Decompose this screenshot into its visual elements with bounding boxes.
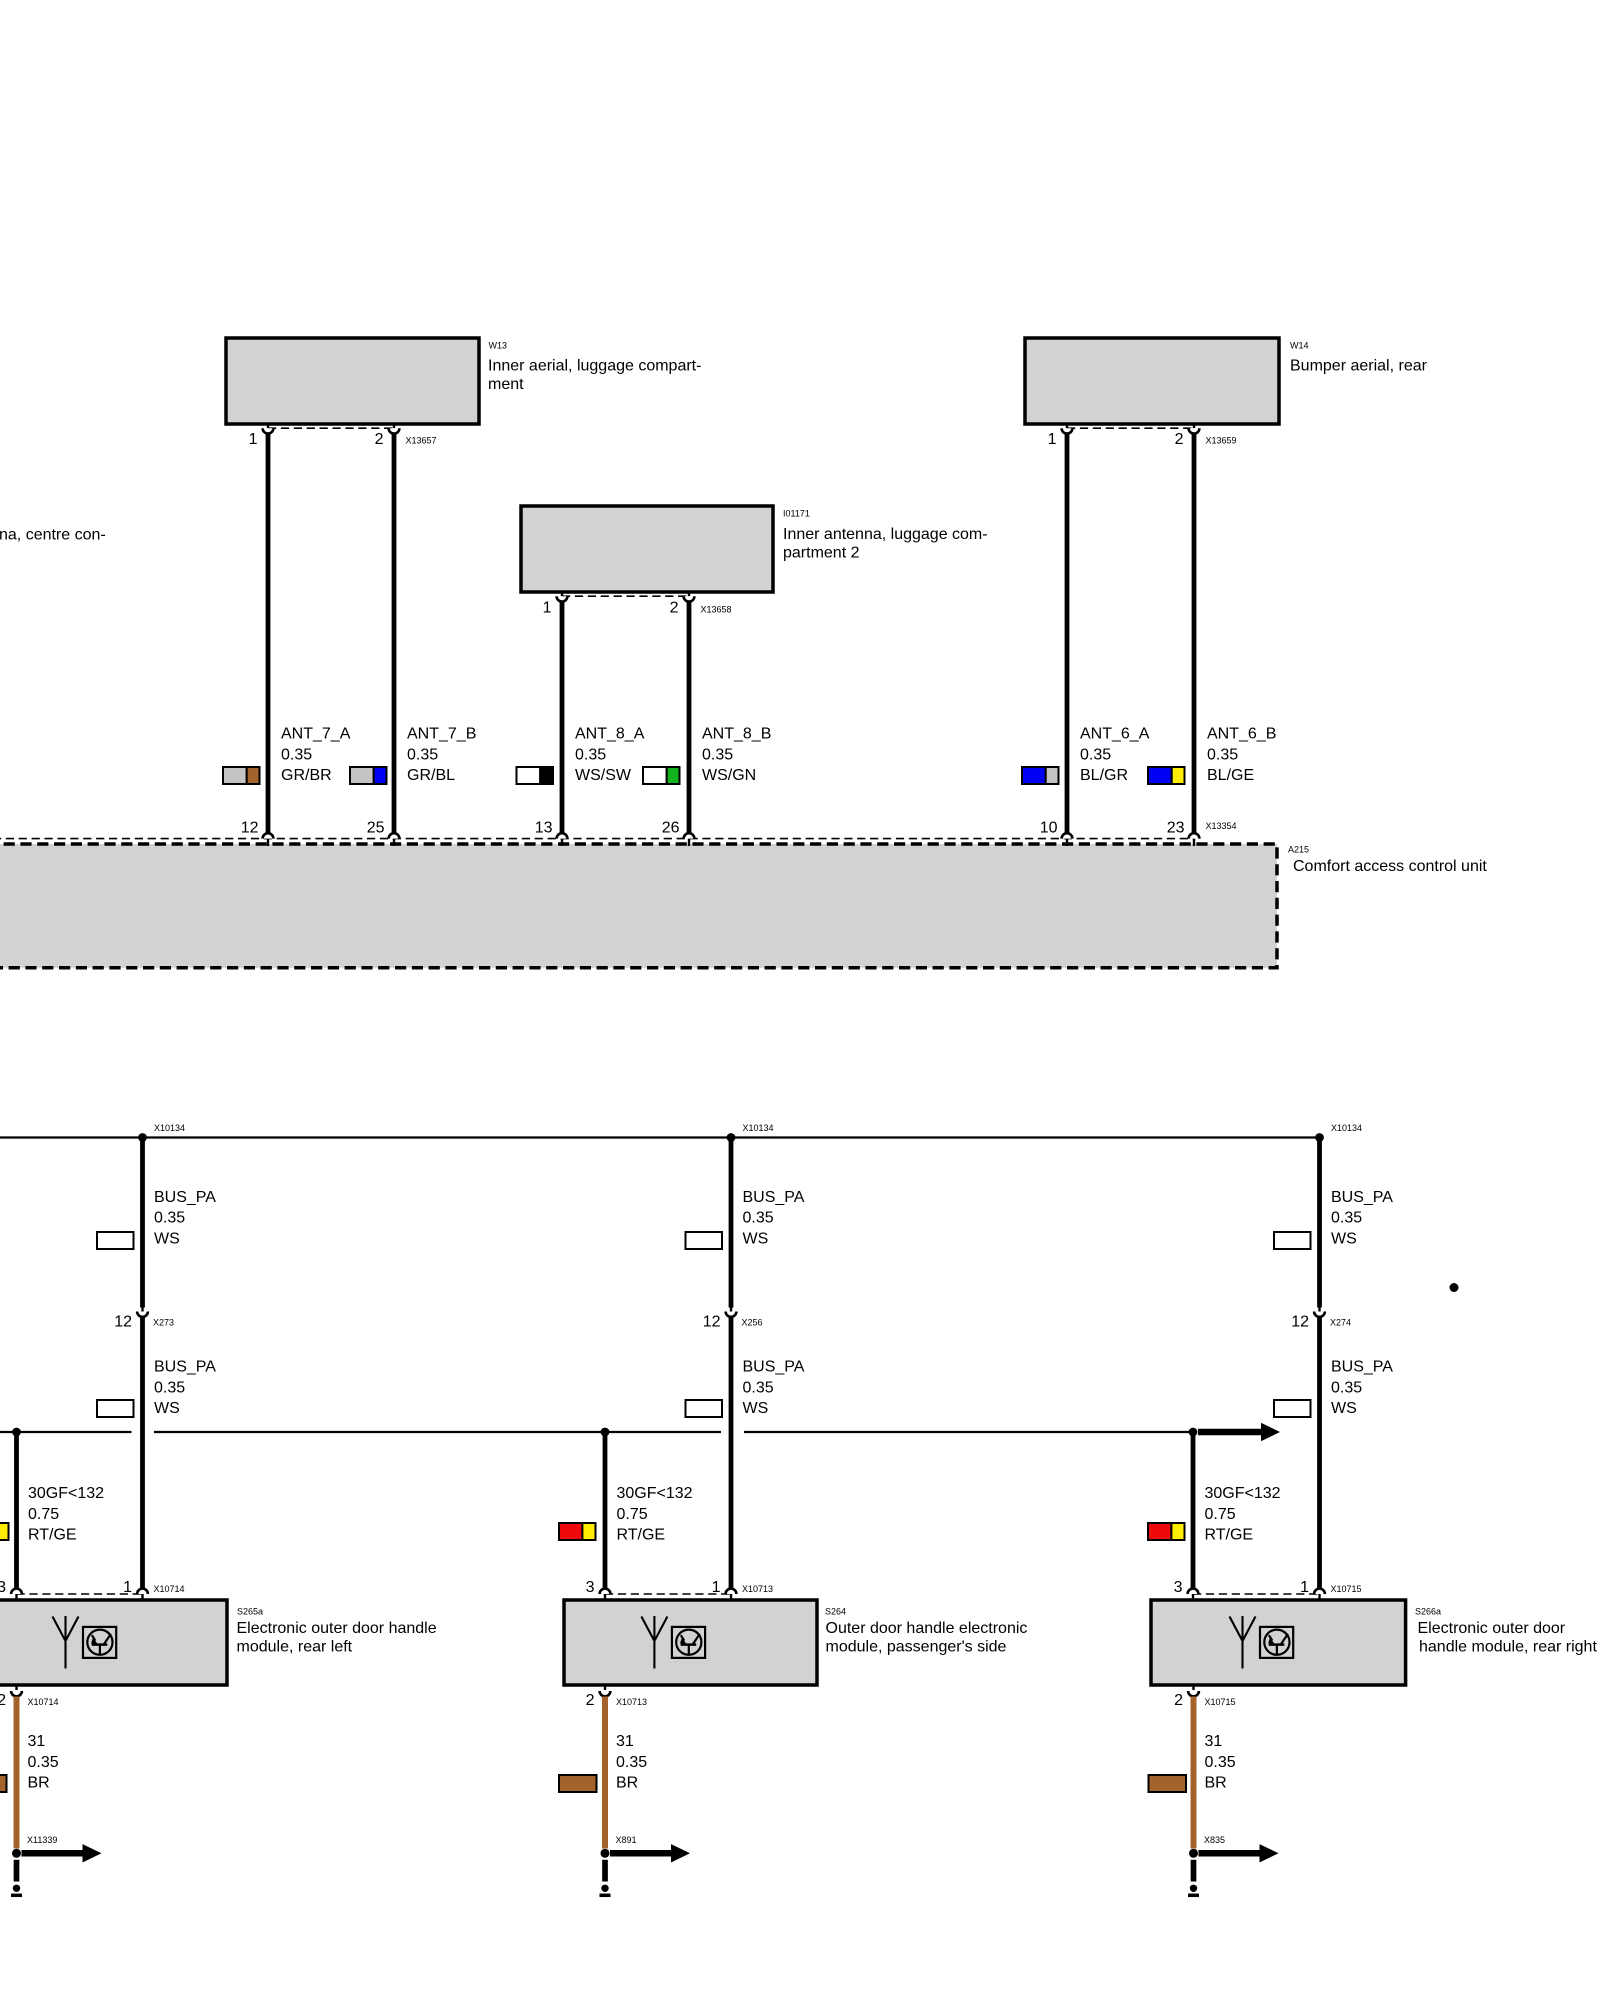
svg-text:WS: WS xyxy=(1331,1400,1357,1417)
svg-text:partment 2: partment 2 xyxy=(783,544,860,561)
svg-text:31: 31 xyxy=(28,1733,46,1750)
svg-text:X891: X891 xyxy=(616,1835,637,1845)
svg-text:31: 31 xyxy=(616,1733,634,1750)
svg-text:30GF<132: 30GF<132 xyxy=(28,1485,104,1502)
svg-text:RT/GE: RT/GE xyxy=(1205,1527,1254,1544)
svg-text:handle module, rear right: handle module, rear right xyxy=(1419,1639,1597,1656)
svg-text:2: 2 xyxy=(1174,1692,1183,1709)
svg-text:Comfort access control unit: Comfort access control unit xyxy=(1293,858,1487,875)
svg-text:31: 31 xyxy=(1205,1733,1223,1750)
svg-text:12: 12 xyxy=(114,1314,132,1331)
svg-text:0.35: 0.35 xyxy=(154,1379,185,1396)
svg-text:1: 1 xyxy=(123,1579,132,1596)
svg-text:ANT_6_A: ANT_6_A xyxy=(1080,726,1150,743)
svg-text:BR: BR xyxy=(616,1775,638,1792)
svg-text:ANT_6_B: ANT_6_B xyxy=(1207,726,1276,743)
svg-text:1: 1 xyxy=(543,600,552,617)
svg-text:W14: W14 xyxy=(1290,341,1309,351)
svg-text:X10715: X10715 xyxy=(1331,1584,1362,1594)
svg-text:13: 13 xyxy=(535,820,553,837)
svg-text:X256: X256 xyxy=(742,1318,763,1328)
svg-text:0.35: 0.35 xyxy=(281,746,312,763)
svg-text:X10714: X10714 xyxy=(28,1697,59,1707)
svg-text:WS: WS xyxy=(1331,1230,1357,1247)
svg-text:S266a: S266a xyxy=(1415,1607,1441,1617)
svg-text:BL/GE: BL/GE xyxy=(1207,767,1254,784)
svg-text:0.35: 0.35 xyxy=(1080,746,1111,763)
svg-text:30GF<132: 30GF<132 xyxy=(617,1485,693,1502)
svg-text:WS: WS xyxy=(743,1400,769,1417)
svg-text:X10713: X10713 xyxy=(616,1697,647,1707)
svg-text:10: 10 xyxy=(1040,820,1058,837)
svg-text:module, passenger's side: module, passenger's side xyxy=(826,1639,1007,1656)
svg-text:0.35: 0.35 xyxy=(1207,746,1238,763)
svg-text:BUS_PA: BUS_PA xyxy=(154,1359,216,1376)
svg-text:BUS_PA: BUS_PA xyxy=(154,1189,216,1206)
svg-text:0.35: 0.35 xyxy=(1205,1754,1236,1771)
svg-text:Inner aerial, luggage compart-: Inner aerial, luggage compart- xyxy=(488,358,701,375)
svg-text:Outer door handle electronic: Outer door handle electronic xyxy=(826,1620,1028,1637)
svg-text:ANT_8_A: ANT_8_A xyxy=(575,726,645,743)
svg-text:12: 12 xyxy=(703,1314,721,1331)
svg-text:0.35: 0.35 xyxy=(575,746,606,763)
svg-text:2: 2 xyxy=(375,431,384,448)
svg-text:2: 2 xyxy=(1175,431,1184,448)
svg-text:0.35: 0.35 xyxy=(743,1210,774,1227)
svg-text:GR/BR: GR/BR xyxy=(281,767,332,784)
svg-text:Electronic outer door handle: Electronic outer door handle xyxy=(237,1620,437,1637)
svg-text:0.75: 0.75 xyxy=(1205,1506,1236,1523)
svg-text:X10134: X10134 xyxy=(1331,1123,1362,1133)
svg-text:0.75: 0.75 xyxy=(617,1506,648,1523)
svg-text:WS/SW: WS/SW xyxy=(575,767,632,784)
svg-text:ANT_8_B: ANT_8_B xyxy=(702,726,771,743)
svg-text:0.35: 0.35 xyxy=(1331,1210,1362,1227)
svg-text:Electronic outer door: Electronic outer door xyxy=(1418,1620,1566,1637)
svg-text:X13659: X13659 xyxy=(1206,436,1237,446)
svg-text:3: 3 xyxy=(586,1579,595,1596)
svg-text:X13657: X13657 xyxy=(406,436,437,446)
svg-text:25: 25 xyxy=(367,820,385,837)
svg-text:Bumper aerial, rear: Bumper aerial, rear xyxy=(1290,358,1428,375)
svg-text:12: 12 xyxy=(1291,1314,1309,1331)
svg-text:1: 1 xyxy=(712,1579,721,1596)
svg-text:GR/BL: GR/BL xyxy=(407,767,455,784)
svg-text:X11339: X11339 xyxy=(27,1835,57,1845)
svg-text:0.35: 0.35 xyxy=(616,1754,647,1771)
svg-text:S264: S264 xyxy=(825,1607,846,1617)
svg-text:30GF<132: 30GF<132 xyxy=(1205,1485,1281,1502)
svg-text:A215: A215 xyxy=(1288,845,1309,855)
svg-text:W13: W13 xyxy=(489,341,508,351)
svg-text:3: 3 xyxy=(1174,1579,1183,1596)
svg-text:1: 1 xyxy=(1048,431,1057,448)
svg-text:2: 2 xyxy=(0,1692,6,1709)
svg-text:BR: BR xyxy=(28,1775,50,1792)
svg-text:2: 2 xyxy=(586,1692,595,1709)
svg-text:0.35: 0.35 xyxy=(154,1210,185,1227)
svg-text:BR: BR xyxy=(1205,1775,1227,1792)
svg-text:BUS_PA: BUS_PA xyxy=(743,1189,805,1206)
svg-text:BUS_PA: BUS_PA xyxy=(1331,1189,1393,1206)
svg-text:26: 26 xyxy=(662,820,680,837)
svg-text:X835: X835 xyxy=(1204,1835,1225,1845)
svg-text:X13658: X13658 xyxy=(701,605,732,615)
svg-text:RT/GE: RT/GE xyxy=(617,1527,666,1544)
svg-text:X10713: X10713 xyxy=(742,1584,773,1594)
svg-text:BUS_PA: BUS_PA xyxy=(743,1359,805,1376)
svg-text:I01171: I01171 xyxy=(783,509,810,519)
svg-text:BL/GR: BL/GR xyxy=(1080,767,1128,784)
svg-text:X13354: X13354 xyxy=(1206,821,1237,831)
svg-text:1: 1 xyxy=(249,431,258,448)
svg-text:ANT_7_B: ANT_7_B xyxy=(407,726,476,743)
svg-text:S265a: S265a xyxy=(237,1607,263,1617)
svg-text:2: 2 xyxy=(670,600,679,617)
svg-text:WS: WS xyxy=(154,1400,180,1417)
svg-text:WS: WS xyxy=(743,1230,769,1247)
svg-text:ANT_7_A: ANT_7_A xyxy=(281,726,351,743)
svg-text:X10134: X10134 xyxy=(743,1123,774,1133)
svg-text:0.35: 0.35 xyxy=(1331,1379,1362,1396)
svg-text:WS/GN: WS/GN xyxy=(702,767,756,784)
svg-text:0.35: 0.35 xyxy=(28,1754,59,1771)
svg-text:BUS_PA: BUS_PA xyxy=(1331,1359,1393,1376)
svg-text:Inner antenna, luggage com-: Inner antenna, luggage com- xyxy=(783,526,988,543)
svg-text:0.35: 0.35 xyxy=(407,746,438,763)
svg-text:23: 23 xyxy=(1167,820,1185,837)
svg-text:1: 1 xyxy=(1300,1579,1309,1596)
svg-text:X273: X273 xyxy=(153,1318,174,1328)
svg-text:RT/GE: RT/GE xyxy=(28,1527,77,1544)
svg-text:12: 12 xyxy=(241,820,259,837)
svg-text:X10715: X10715 xyxy=(1205,1697,1236,1707)
svg-text:na, centre con-: na, centre con- xyxy=(0,527,106,544)
svg-text:0.75: 0.75 xyxy=(28,1506,59,1523)
svg-text:WS: WS xyxy=(154,1230,180,1247)
svg-text:0.35: 0.35 xyxy=(702,746,733,763)
svg-text:X274: X274 xyxy=(1330,1318,1351,1328)
svg-text:3: 3 xyxy=(0,1579,6,1596)
svg-text:X10134: X10134 xyxy=(154,1123,185,1133)
svg-text:X10714: X10714 xyxy=(154,1584,185,1594)
svg-text:module, rear left: module, rear left xyxy=(237,1639,353,1656)
svg-text:0.35: 0.35 xyxy=(743,1379,774,1396)
svg-text:ment: ment xyxy=(488,376,524,393)
